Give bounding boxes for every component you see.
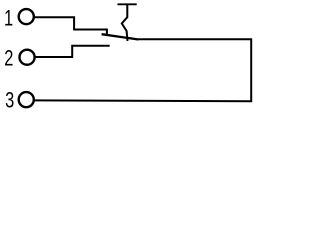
terminal 1 circle bbox=[19, 9, 34, 24]
pushbutton actuator (T handle with linkage to lever) bbox=[118, 4, 137, 41]
terminal 2 circle bbox=[20, 50, 35, 65]
terminal 3 circle bbox=[19, 92, 34, 107]
wire: terminal 1 to NC fixed contact (with contact stub) bbox=[35, 17, 107, 35]
wire: lever pivot to terminal 3 (right side loop) bbox=[35, 39, 252, 101]
svg-text:2: 2 bbox=[4, 46, 13, 71]
wire: terminal 2 to NO fixed contact (open end) bbox=[36, 46, 110, 57]
svg-text:3: 3 bbox=[5, 88, 14, 113]
svg-text:1: 1 bbox=[4, 6, 13, 31]
switch lever (common pole, movable contact) bbox=[102, 34, 139, 39]
